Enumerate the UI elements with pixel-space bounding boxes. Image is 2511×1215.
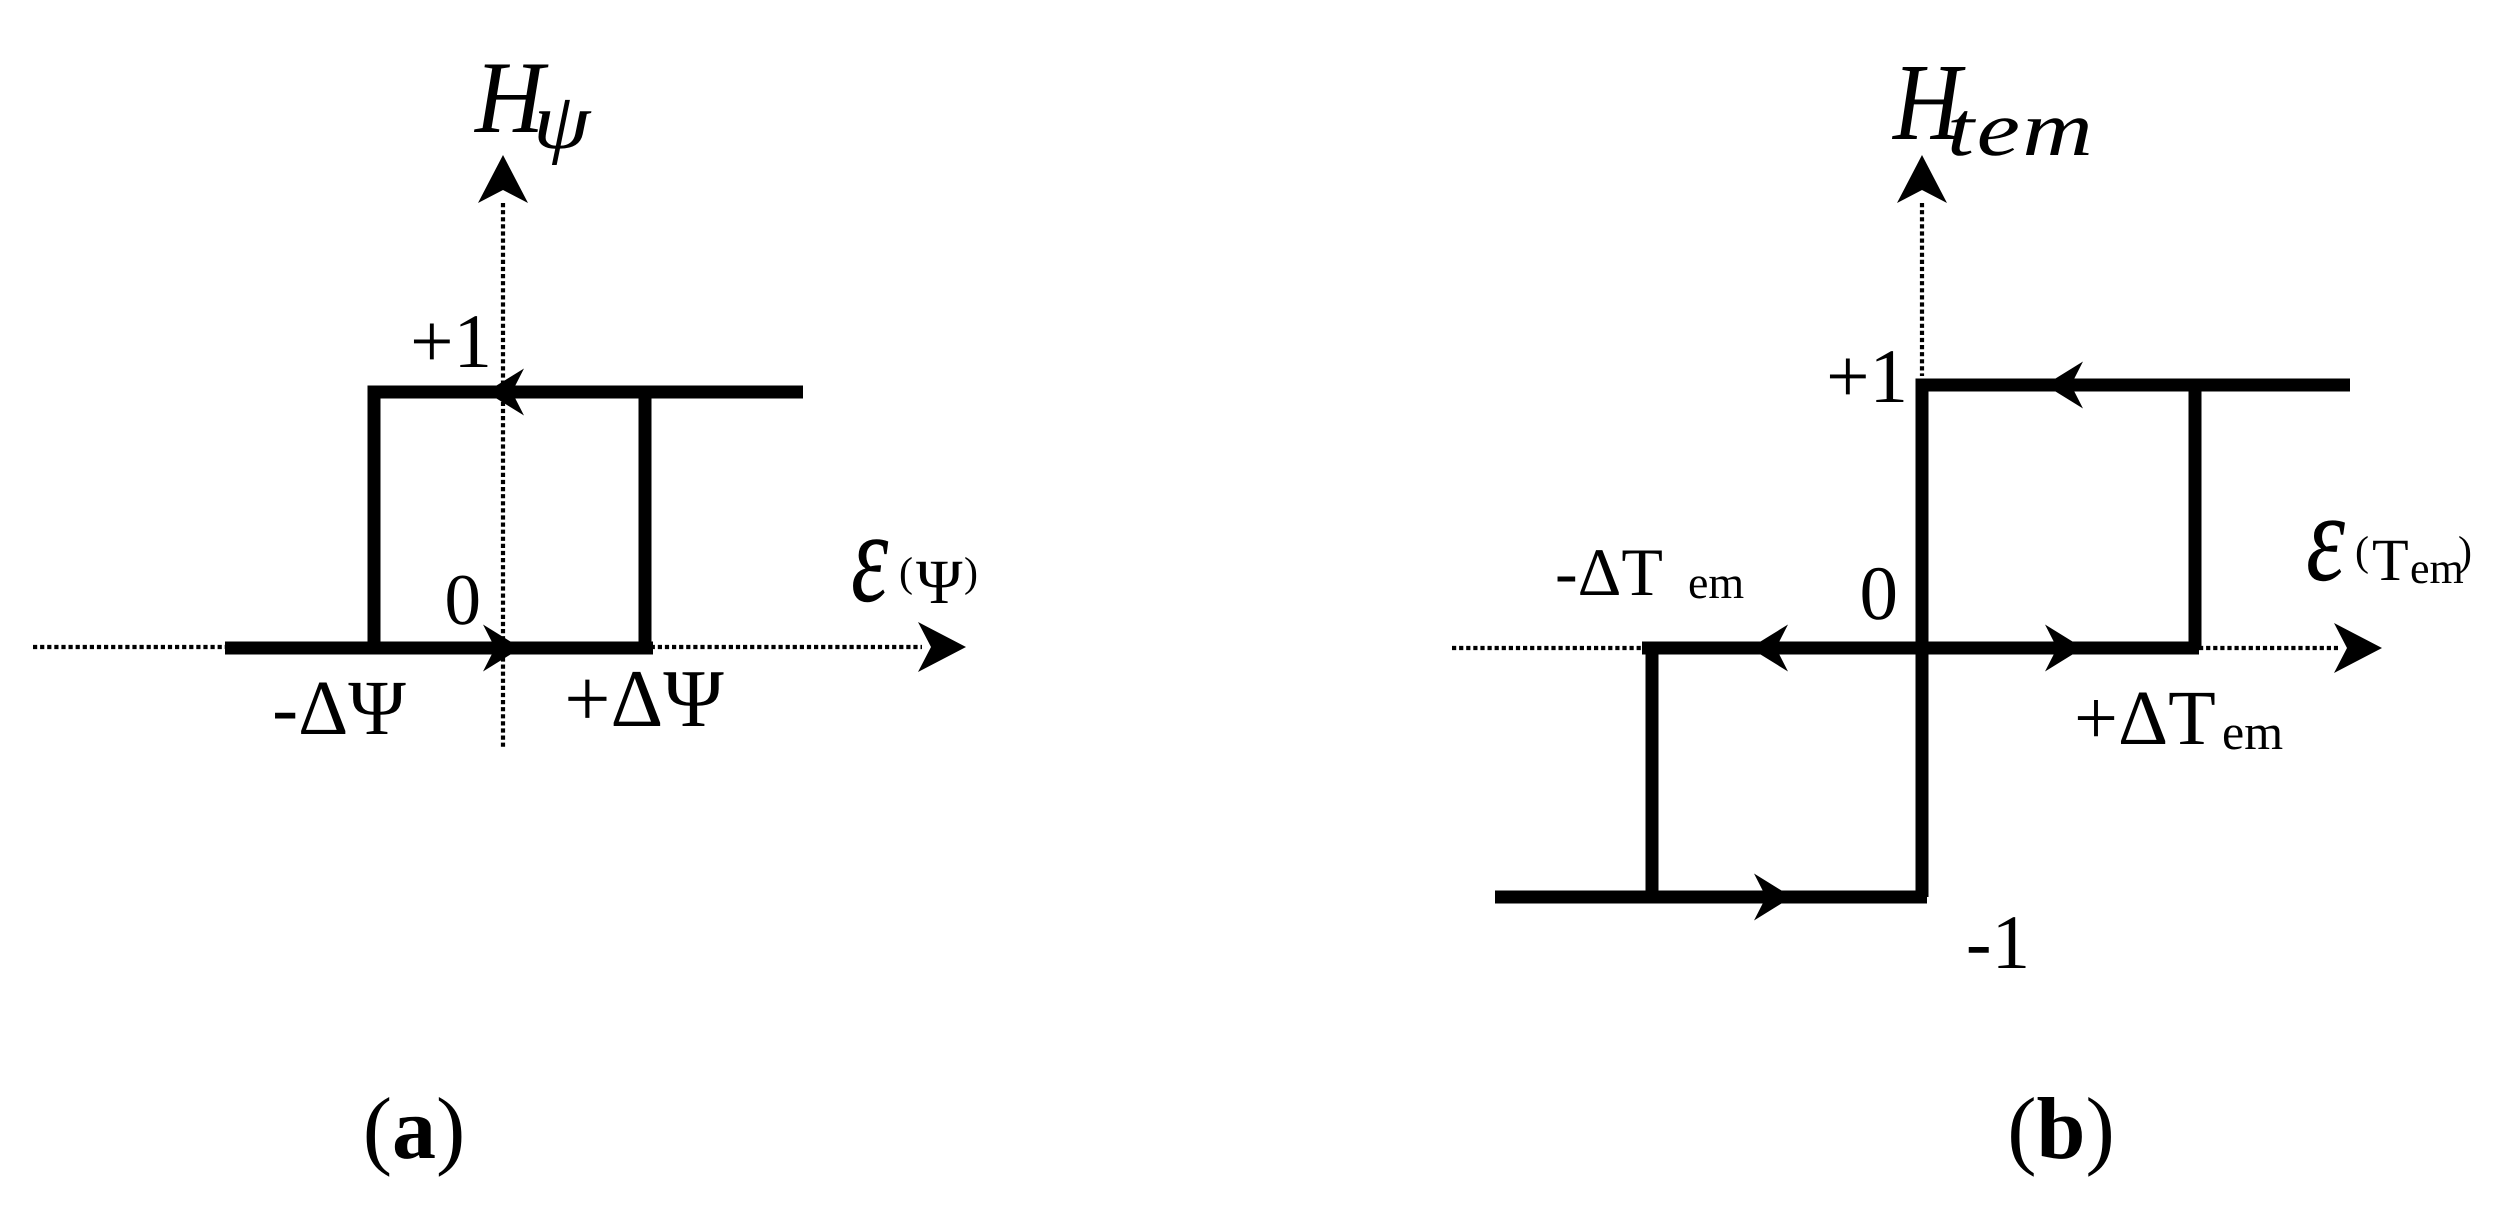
svg-text:+1: +1	[410, 298, 492, 384]
svg-text:(: (	[2355, 529, 2369, 575]
svg-text:T: T	[2372, 527, 2409, 593]
svg-text:tem: tem	[1947, 85, 2095, 172]
svg-text:(: (	[899, 550, 913, 596]
svg-text:+ΔΨ: +ΔΨ	[564, 653, 724, 744]
svg-text:em: em	[2222, 704, 2283, 760]
svg-text:-1: -1	[1966, 899, 2030, 985]
svg-text:+ΔT: +ΔT	[2074, 674, 2216, 761]
svg-text:0: 0	[445, 559, 482, 640]
svg-text:-ΔΨ: -ΔΨ	[272, 664, 406, 751]
svg-text:em: em	[2410, 544, 2464, 593]
svg-text:-ΔT: -ΔT	[1555, 534, 1663, 610]
svg-text:+1: +1	[1826, 333, 1908, 419]
svg-text:Ψ: Ψ	[916, 547, 963, 617]
svg-text:ε: ε	[851, 485, 889, 630]
svg-text:(a): (a)	[363, 1081, 466, 1178]
svg-text:ε: ε	[2306, 468, 2346, 608]
svg-text:(b): (b)	[2007, 1081, 2115, 1178]
svg-text:em: em	[1688, 557, 1744, 608]
svg-text:): )	[2458, 529, 2472, 575]
svg-text:0: 0	[1860, 550, 1899, 636]
svg-text:): )	[964, 550, 978, 596]
svg-text:ψ: ψ	[533, 78, 592, 166]
